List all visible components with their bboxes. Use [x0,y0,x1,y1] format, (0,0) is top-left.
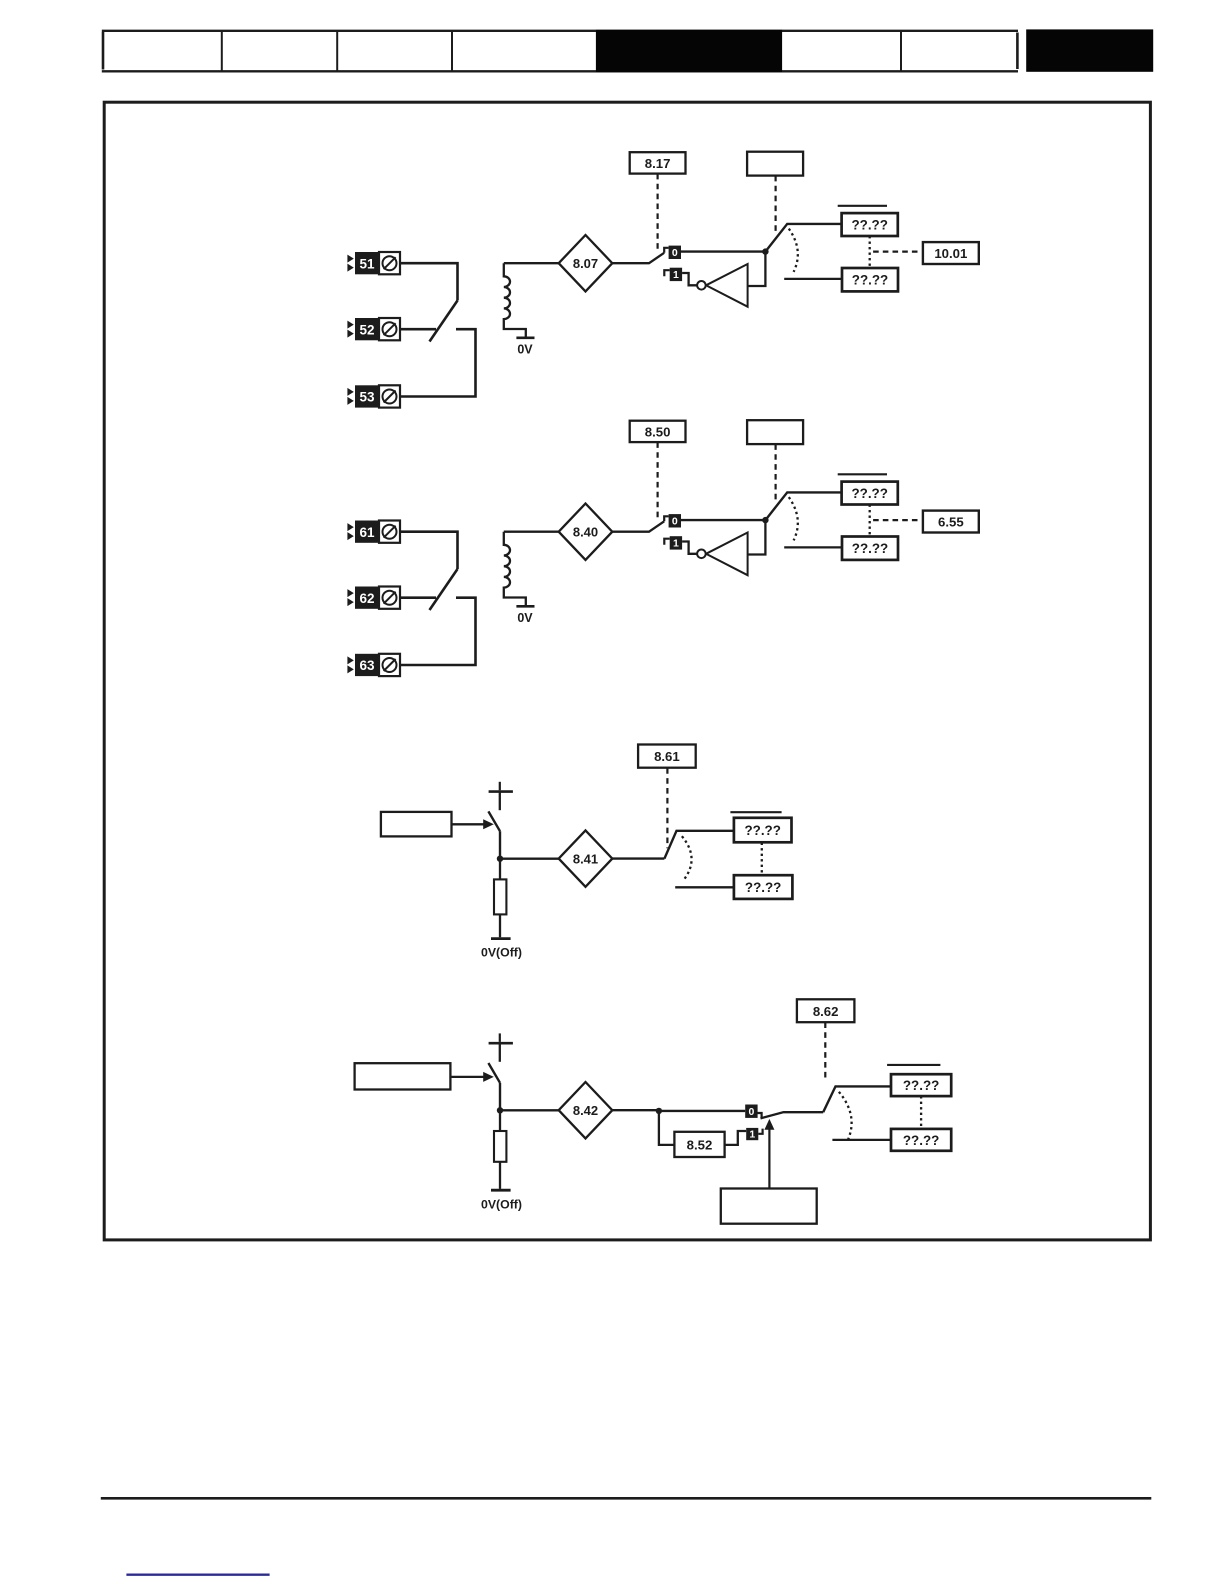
svg-text:8.52: 8.52 [687,1137,713,1152]
selector 0 tail (s51) [664,248,668,253]
switch blade (s51) [430,301,458,342]
svg-text:8.62: 8.62 [813,1004,839,1019]
destination parameter box bottom (s61) [842,537,898,560]
dashed link 8.17 [656,174,658,251]
dotted link between destinations (s51) [869,236,871,268]
svg-text:10.01: 10.01 [934,246,967,261]
selector blade (s8.42) [761,1112,824,1118]
svg-text:??.??: ??.?? [745,880,781,895]
destination parameter box top (s61) [842,482,898,505]
selector contact 1 (s51) [670,268,682,281]
terminal 62 [347,587,400,609]
svg-text:8.42: 8.42 [573,1103,598,1118]
wire inverter input (s51) [748,252,766,286]
wire node to selector 0 (s8.42) [659,1110,745,1112]
terminal 53 [347,385,400,407]
wire to bottom destination (s61) [784,546,842,548]
wire node to diamond 8.42 [500,1109,559,1111]
wire to bottom destination (s8.41) [675,886,734,888]
destination parameter box bottom (s8.41) [734,875,793,899]
wire to bottom destination (s8.42) [832,1139,891,1141]
ground 0V(Off) (s8.41) [481,939,522,960]
wire terminal 63 to switch [400,598,476,665]
parameter box 6.55 [923,511,979,533]
dashed link 8.50 [656,442,658,519]
switch blade (s8.42) [488,1063,500,1083]
ground 0V(Off) (s8.42) [481,1190,522,1211]
dotted link between destinations (s8.41) [761,843,763,876]
svg-text:??.??: ??.?? [903,1133,939,1148]
selector 0 tail (s8.42) [758,1113,762,1119]
svg-text:8.61: 8.61 [654,749,680,764]
supply stem (s8.41) [499,792,501,811]
selector contact 1 (s8.42) [746,1128,758,1141]
terminal 51 [347,252,400,274]
input coil (s61) [504,532,526,607]
wire resistor to ground (s8.42) [499,1162,501,1189]
switch wiper to destination (s61) [765,492,841,520]
svg-text:??.??: ??.?? [852,541,888,556]
overline destination (s8.42) [887,1064,940,1066]
selector contact 0 (s61) [669,514,681,527]
wire node to resistor (s8.42) [499,1110,501,1131]
dashed link destination select (s61) [774,444,776,502]
switch motion arc (s8.41) [682,836,692,879]
switch motion arc (s61) [789,497,798,540]
ground 0V (s51) [516,338,534,357]
svg-text:0: 0 [672,247,678,259]
reference box 8.50 [630,421,686,442]
svg-text:8.50: 8.50 [645,424,671,439]
svg-text:??.??: ??.?? [852,273,888,288]
footer rule [101,1497,1152,1500]
wire selector 0 to node (s61) [681,519,765,521]
node junction (s8.42) [497,1107,503,1113]
svg-text:0V: 0V [517,343,533,357]
selector contact 1 (s61) [670,536,682,549]
parameter diamond 8.41 [559,830,613,886]
input coil (s51) [504,263,526,338]
destination select box (blank) (s51) [747,152,803,176]
parameter box 10.01 [923,242,979,264]
parameter diamond 8.40 [559,504,613,560]
node junction (s61) [762,517,768,523]
node junction (s51) [762,248,768,254]
header black tab (right) [1026,29,1153,71]
dashed link 8.61 [666,768,668,848]
pull-down resistor (s8.42) [494,1131,506,1162]
svg-text:??.??: ??.?? [903,1078,939,1093]
reference box 8.17 [630,152,686,173]
wire inverter output to selector 1 (s61) [682,542,697,554]
dotted link between destinations (s8.42) [920,1096,922,1129]
dashed link destination select (s51) [774,176,776,234]
selector 1 tail (s51) [664,270,669,276]
svg-text:??.??: ??.?? [744,823,780,838]
reference box 8.61 [638,745,696,768]
overline destination (s51) [838,205,887,207]
wire node to 8.52 [659,1111,675,1145]
overline destination (s61) [838,473,887,475]
svg-text:0V(Off): 0V(Off) [481,946,522,960]
switch wiper to destination (s8.41) [664,831,734,859]
control wire from source box (s8.42) [768,1130,770,1189]
arrowhead select (s8.41) [483,819,494,829]
pull-down resistor (s8.41) [494,879,506,914]
selector contact 0 (s51) [669,246,681,259]
header black cell [596,30,782,72]
dashed link to 6.55 [873,519,921,521]
wire select box to switch (s8.42) [450,1076,483,1078]
svg-text:6.55: 6.55 [938,515,964,530]
inverter (s51) [697,264,747,307]
parameter diamond 8.07 [559,235,613,291]
wire coil to diamond 8.40 [504,531,559,533]
wire terminal 61 to switch [400,532,458,569]
svg-text:8.41: 8.41 [573,852,598,867]
wire 8.52 to selector 1 [725,1131,747,1145]
svg-text:63: 63 [359,658,375,673]
wire blade to node (s8.42) [499,1083,501,1111]
node junction (s8.41) [497,856,503,862]
arrowhead select (s8.42) [483,1072,494,1082]
parameter diamond 8.42 [559,1082,613,1138]
page header table [102,31,1018,72]
wire diamond 8.07 to selector [612,253,664,263]
svg-text:8.40: 8.40 [573,525,598,540]
wire diamond 8.41 to switch [612,857,664,859]
selector contact 0 (s8.42) [745,1105,757,1118]
destination parameter box top (s8.42) [891,1074,951,1096]
dashed link to 10.01 [873,251,921,253]
switch blade (s8.41) [488,811,500,831]
ground 0V (s61) [516,606,534,625]
svg-text:??.??: ??.?? [851,486,887,501]
svg-text:1: 1 [673,269,679,281]
svg-text:53: 53 [359,390,375,405]
footer link underline [126,1573,269,1575]
wire terminal 62 stub [400,596,436,599]
svg-text:0V(Off): 0V(Off) [481,1197,522,1211]
terminal 52 [347,318,400,340]
svg-text:61: 61 [359,525,375,540]
svg-text:62: 62 [359,591,374,606]
wire to bottom destination (s51) [784,278,842,280]
svg-text:52: 52 [359,322,374,337]
wire diamond 8.40 to selector [612,521,664,531]
wire coil to diamond 8.07 [504,262,559,264]
selector 0 tail (s61) [664,516,668,521]
destination parameter box top (s8.41) [734,818,792,843]
terminal 63 [347,654,400,676]
supply rail symbol (s8.42) [489,1033,513,1043]
wire terminal 53 to switch [400,329,476,396]
svg-text:51: 51 [359,256,375,271]
svg-text:1: 1 [673,538,679,550]
svg-text:8.07: 8.07 [573,256,598,271]
svg-text:1: 1 [749,1129,755,1141]
destination parameter box bottom (s51) [842,268,898,291]
switch wiper to destination (s8.42) [823,1086,891,1112]
wire select box to switch (s8.41) [452,823,484,825]
control arrowhead (s8.42) [764,1119,774,1130]
parameter box 8.52 [674,1132,724,1157]
wire terminal 52 stub [400,328,436,331]
wire blade to node (s8.41) [499,831,501,859]
destination parameter box top (s51) [842,213,898,236]
destination parameter box bottom (s8.42) [891,1129,951,1151]
control source box (blank) (s8.42) [721,1189,817,1224]
wire resistor to ground (s8.41) [499,914,501,937]
terminal 61 [347,521,400,543]
switch blade (s61) [430,569,458,610]
node junction B (s8.42) [656,1108,662,1114]
svg-text:8.17: 8.17 [645,156,671,171]
switch motion arc (s8.42) [839,1092,852,1142]
svg-text:0: 0 [748,1106,754,1118]
wire inverter input (s61) [748,520,766,554]
svg-text:0: 0 [672,515,678,527]
supply rail symbol (s8.41) [489,782,513,792]
inverter (s61) [697,533,747,576]
input select box (blank) (s8.42) [355,1063,451,1089]
switch wiper to destination (s51) [765,224,841,252]
input select box (blank) (s8.41) [381,812,452,837]
wire diamond 8.42 to node [612,1109,659,1111]
destination select box (blank) (s61) [747,420,803,444]
reference box 8.62 [797,999,855,1022]
supply stem (s8.42) [499,1043,501,1062]
dashed link 8.62 [824,1022,826,1080]
switch motion arc (s51) [789,229,798,272]
wire inverter output to selector 1 (s51) [682,273,697,285]
wire node to resistor (s8.41) [499,859,501,880]
wire node to diamond 8.41 [500,858,559,860]
svg-text:0V: 0V [517,611,533,625]
wire selector 0 to node (s51) [681,250,765,252]
svg-text:??.??: ??.?? [851,218,887,233]
overline destination (s8.41) [730,811,781,813]
wire terminal 51 to switch [400,263,458,300]
dotted link between destinations (s61) [869,505,871,537]
selector 1 tail (s61) [664,539,669,545]
selector 1 tail (s8.42) [758,1129,762,1134]
